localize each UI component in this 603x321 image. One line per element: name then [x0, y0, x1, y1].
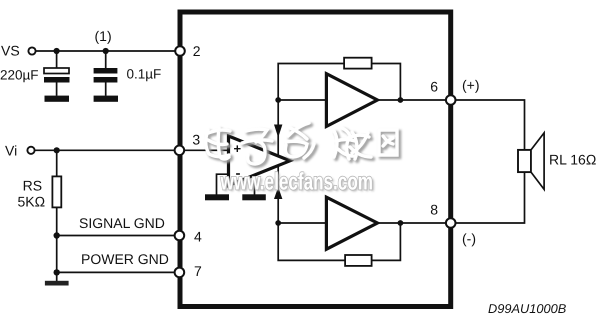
svg-text:(1): (1)	[95, 28, 112, 44]
svg-text:8: 8	[430, 202, 438, 218]
svg-text:RL 16Ω: RL 16Ω	[549, 152, 596, 168]
svg-text:2: 2	[193, 43, 201, 59]
svg-text:5KΩ: 5KΩ	[18, 193, 46, 209]
svg-text:SIGNAL GND: SIGNAL GND	[79, 215, 165, 231]
svg-text:3: 3	[192, 132, 200, 148]
svg-text:(+): (+)	[462, 77, 480, 93]
svg-text:(-): (-)	[462, 230, 476, 246]
svg-text:4: 4	[194, 228, 202, 244]
svg-text:7: 7	[194, 263, 202, 279]
svg-text:0.1µF: 0.1µF	[127, 67, 162, 82]
svg-text:D99AU1000B: D99AU1000B	[488, 301, 567, 316]
svg-text:VS: VS	[1, 43, 20, 59]
svg-text:6: 6	[430, 78, 438, 94]
svg-text:+: +	[234, 141, 242, 156]
svg-text:220µF: 220µF	[0, 68, 39, 83]
svg-text:Vi: Vi	[5, 143, 17, 159]
svg-text:RS: RS	[23, 178, 42, 194]
svg-text:POWER GND: POWER GND	[81, 251, 169, 267]
